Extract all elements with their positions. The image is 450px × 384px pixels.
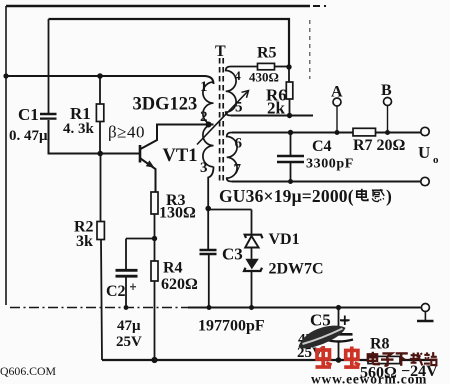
svg-text:3DG123: 3DG123 — [133, 95, 198, 115]
svg-text:R4: R4 — [163, 260, 183, 277]
svg-text:GU36×19μ=2000(: GU36×19μ=2000( — [219, 186, 354, 206]
svg-text:25V: 25V — [116, 334, 142, 350]
svg-text:620Ω: 620Ω — [161, 276, 198, 293]
svg-text:430Ω: 430Ω — [249, 70, 279, 85]
svg-text:VD1: VD1 — [269, 231, 300, 248]
svg-text:R5: R5 — [257, 45, 277, 62]
svg-text:U: U — [418, 143, 430, 162]
svg-text:B: B — [381, 82, 392, 99]
svg-text:0. 47μ: 0. 47μ — [9, 128, 48, 144]
svg-text:C1: C1 — [18, 105, 39, 124]
svg-text:C2: C2 — [106, 283, 126, 300]
svg-text:): ) — [386, 186, 392, 206]
svg-text:4. 3k: 4. 3k — [63, 121, 95, 137]
svg-text:3k: 3k — [76, 233, 93, 250]
svg-text:2DW7C: 2DW7C — [269, 261, 324, 278]
svg-text:o: o — [433, 154, 439, 166]
svg-text:1: 1 — [200, 79, 208, 95]
svg-text:β≥40: β≥40 — [108, 123, 145, 142]
svg-text:A: A — [331, 84, 343, 101]
svg-text:3300pF: 3300pF — [306, 157, 354, 172]
svg-text:197700pF: 197700pF — [198, 318, 265, 335]
svg-text:R7 20Ω: R7 20Ω — [353, 137, 406, 154]
svg-text:3: 3 — [200, 160, 208, 176]
svg-text:C4: C4 — [312, 138, 332, 155]
svg-text:7: 7 — [234, 162, 242, 178]
svg-text:www.eeworm.com: www.eeworm.com — [311, 372, 427, 384]
svg-text:2k: 2k — [267, 99, 286, 118]
svg-text:130Ω: 130Ω — [159, 205, 196, 222]
svg-text:T: T — [215, 43, 226, 60]
svg-text:VT1: VT1 — [163, 146, 198, 166]
svg-text:47μ: 47μ — [117, 318, 141, 334]
svg-text:6: 6 — [235, 136, 243, 152]
svg-text:C3: C3 — [222, 245, 243, 264]
svg-text:Q606.COM: Q606.COM — [0, 364, 57, 378]
svg-text:2: 2 — [200, 109, 208, 125]
svg-text:4: 4 — [235, 69, 242, 83]
svg-text:5: 5 — [235, 100, 243, 116]
svg-text:R8: R8 — [370, 336, 390, 353]
